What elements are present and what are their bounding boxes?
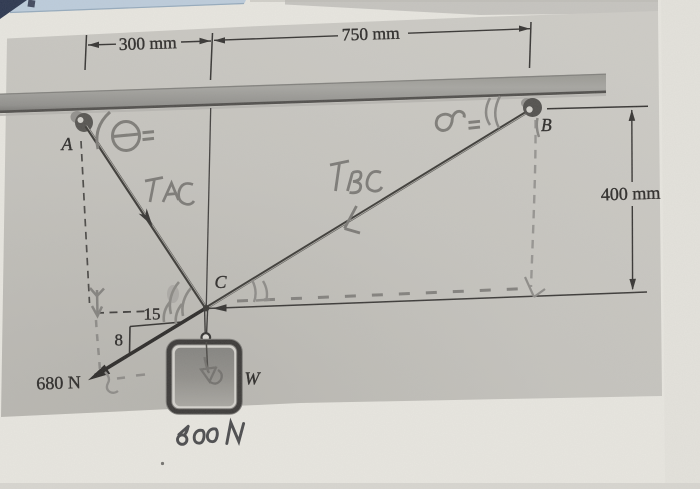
page right edge strip	[661, 0, 700, 489]
beam	[0, 74, 606, 114]
pencil wavy dashed vertical	[96, 320, 100, 371]
dark navy corner	[0, 0, 27, 19]
pulley A	[71, 111, 84, 123]
pencil mark near 530	[525, 277, 545, 297]
handwriting theta= at A	[97, 112, 154, 151]
cable CB	[206, 111, 529, 308]
dim 300mm left arrow	[88, 38, 211, 48]
line B to right	[547, 106, 648, 109]
arrow at C pointing left	[213, 304, 227, 311]
dashed line below A	[81, 141, 90, 303]
small dark mark top	[27, 0, 35, 8]
8-15 triangle	[130, 322, 183, 354]
dashed below B (pencil)	[531, 120, 536, 287]
pencil arcs at B	[486, 96, 539, 137]
tick middle	[211, 33, 213, 80]
dim 750mm	[214, 26, 530, 44]
printed dashes left of C (15-line)	[96, 311, 145, 313]
junction knot at C	[203, 305, 209, 311]
pencil arrow on CB	[345, 206, 361, 233]
pencil scribble near arrow tip	[105, 372, 118, 393]
handwriting TAC	[145, 178, 194, 205]
top darker band above panel	[285, 0, 658, 15]
hook below C	[204, 310, 207, 333]
tick left	[85, 35, 87, 70]
handwriting 800 N	[178, 423, 244, 445]
blue strip top-left	[8, 0, 246, 13]
handwriting alpha= at B	[436, 111, 480, 130]
pencil down-arrow at left end of 15-line	[90, 288, 104, 316]
pencil arcs left of C	[164, 282, 191, 324]
pencil dashes right of C	[237, 289, 526, 302]
handwriting TBC	[330, 161, 382, 193]
680N force line	[95, 308, 206, 376]
400mm vertical	[631, 110, 633, 182]
arrow on AC	[139, 208, 153, 226]
bottom edge shading	[0, 483, 700, 489]
vertical line beam to C	[206, 108, 210, 306]
figure gray panel	[1, 11, 662, 417]
small dot bottom	[161, 462, 164, 465]
weight box	[169, 342, 240, 412]
string in box	[206, 342, 208, 372]
line C to right	[206, 292, 647, 309]
pencil arrow in box	[201, 357, 222, 384]
cable AC	[86, 126, 206, 308]
pencil dashes right of scribble	[117, 375, 145, 379]
pulley B	[521, 98, 532, 108]
tick right	[530, 22, 532, 68]
pencil arcs right of C	[252, 280, 270, 302]
